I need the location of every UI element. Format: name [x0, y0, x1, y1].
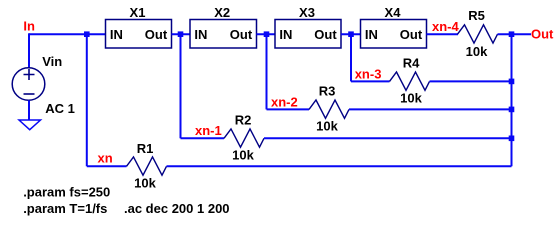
wire xn-1 vertical: [180, 34, 182, 138]
svg-text:R1: R1: [137, 141, 154, 156]
svg-text:.ac dec 200 1 200: .ac dec 200 1 200: [124, 201, 230, 216]
svg-text:X1: X1: [130, 5, 146, 20]
wire In down to source: [28, 33, 30, 68]
resistor R5: [458, 25, 498, 43]
wire X4 to R5: [427, 33, 459, 35]
svg-text:Out: Out: [531, 27, 554, 42]
wire output bus vertical: [511, 34, 513, 166]
svg-text:R3: R3: [319, 84, 336, 99]
wire R5 to Out: [498, 33, 532, 35]
junction node Out top: [509, 31, 515, 37]
svg-text:AC 1: AC 1: [45, 101, 75, 116]
svg-text:10k: 10k: [232, 148, 254, 163]
subcircuit X1 box: [106, 20, 172, 49]
svg-text:IN: IN: [365, 27, 378, 42]
voltage source plus sign: [24, 69, 35, 80]
svg-text:10k: 10k: [316, 119, 338, 134]
svg-text:IN: IN: [110, 27, 123, 42]
voltage source V1 circle: [12, 68, 45, 101]
wire R4 to bus: [430, 80, 512, 82]
wire X3 to X4: [341, 33, 361, 35]
svg-text:X2: X2: [214, 5, 230, 20]
subcircuit X2 box: [190, 20, 257, 49]
resistor R1: [127, 157, 167, 175]
junction node xn-1: [178, 31, 184, 37]
subcircuit X4 box: [361, 20, 427, 49]
svg-text:xn: xn: [98, 150, 113, 165]
svg-text:.param fs=250: .param fs=250: [23, 184, 110, 199]
wire xn-3 vertical: [350, 34, 352, 81]
svg-text:R2: R2: [235, 113, 252, 128]
svg-text:X4: X4: [385, 5, 402, 20]
svg-text:.param T=1/fs: .param T=1/fs: [23, 201, 107, 216]
subcircuit X3 box: [275, 20, 341, 49]
svg-text:Out: Out: [314, 27, 337, 42]
svg-text:X3: X3: [299, 5, 315, 20]
svg-text:10k: 10k: [466, 44, 488, 59]
junction node xn-3: [348, 31, 354, 37]
svg-text:10k: 10k: [400, 91, 422, 106]
svg-text:xn-2: xn-2: [271, 94, 298, 109]
wire xn-1 row left: [181, 137, 225, 139]
resistor R2: [224, 129, 264, 147]
wire In horizontal to X1: [29, 33, 106, 35]
wire X2 to X3: [257, 33, 276, 35]
svg-text:IN: IN: [279, 27, 292, 42]
ground: [19, 120, 41, 130]
junction node xn: [84, 31, 90, 37]
svg-text:xn-1: xn-1: [195, 123, 222, 138]
svg-text:R4: R4: [403, 56, 420, 71]
resistor R3: [309, 100, 349, 118]
svg-text:Out: Out: [145, 27, 168, 42]
wire X1 to X2: [172, 33, 191, 35]
wire R1 to bus: [167, 165, 512, 167]
svg-text:IN: IN: [194, 27, 207, 42]
junction node xn-2: [264, 31, 270, 37]
voltage source minus sign: [24, 93, 35, 95]
resistor R4: [390, 72, 430, 90]
svg-text:R5: R5: [468, 8, 485, 23]
svg-text:xn-4: xn-4: [432, 19, 460, 34]
junction R4 bus: [509, 79, 515, 85]
wire xn row left: [87, 165, 127, 167]
wire xn-2 vertical: [266, 34, 268, 109]
wire R2 to bus: [264, 137, 512, 139]
wire xn-2 row left: [267, 108, 310, 110]
svg-text:Vin: Vin: [42, 54, 62, 69]
wire source to ground: [28, 100, 30, 120]
wire R3 to bus: [349, 108, 512, 110]
svg-text:10k: 10k: [134, 176, 156, 191]
svg-text:Out: Out: [230, 27, 253, 42]
svg-text:Out: Out: [400, 27, 423, 42]
svg-text:In: In: [23, 19, 35, 34]
junction R3 bus: [509, 107, 515, 113]
svg-text:xn-3: xn-3: [355, 66, 382, 81]
wire xn vertical: [86, 34, 88, 166]
junction R2 bus: [509, 136, 515, 142]
wire xn-3 row left: [351, 80, 390, 82]
